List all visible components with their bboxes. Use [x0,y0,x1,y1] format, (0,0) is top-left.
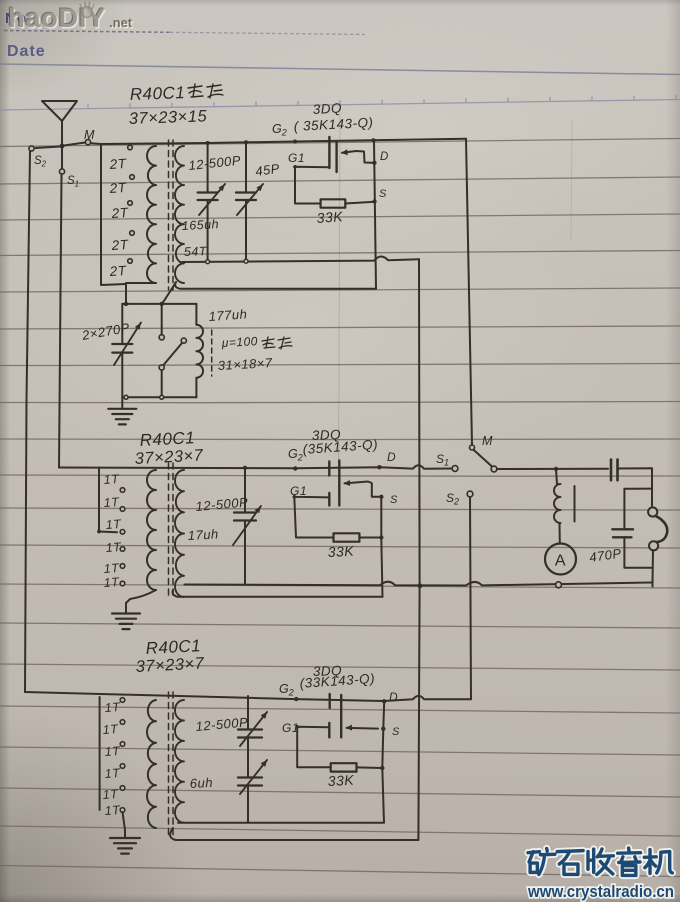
svg-text:1T: 1T [104,744,121,759]
svg-text:G1: G1 [290,484,307,498]
svg-text:R40C1: R40C1 [129,83,185,104]
svg-text:6uh: 6uh [189,775,213,791]
svg-text:1T: 1T [104,766,121,781]
svg-text:37×23×7: 37×23×7 [135,654,205,676]
svg-text:1T: 1T [105,540,122,555]
svg-text:1T: 1T [103,561,120,576]
svg-text:31×18×7: 31×18×7 [217,355,273,373]
svg-text:3DQ: 3DQ [312,100,342,117]
svg-text:1T: 1T [105,517,122,532]
svg-text:1T: 1T [103,575,120,590]
svg-text:D: D [380,151,389,163]
svg-text:.net: .net [109,15,133,30]
svg-text:2T: 2T [108,156,128,172]
svg-text:S: S [392,726,400,738]
svg-text:165uh: 165uh [181,217,219,233]
svg-text:37×23×7: 37×23×7 [134,446,204,468]
svg-text:D: D [389,690,398,704]
svg-text:M: M [84,128,95,142]
svg-text:Date: Date [7,43,46,60]
svg-text:D: D [387,450,396,464]
svg-text:S: S [379,188,387,200]
svg-text:www.crystalradio.cn: www.crystalradio.cn [527,883,674,901]
svg-text:S: S [390,494,398,506]
svg-text:33K: 33K [316,208,344,226]
svg-text:54T: 54T [184,244,208,259]
svg-text:2T: 2T [110,237,130,253]
svg-text:A: A [555,553,566,570]
svg-text:1T: 1T [104,803,121,818]
svg-text:1T: 1T [102,787,119,802]
svg-text:1T: 1T [104,700,121,715]
svg-text:33K: 33K [327,772,354,789]
svg-text:17uh: 17uh [187,526,219,543]
svg-text:2T: 2T [108,263,128,279]
svg-text:G1: G1 [282,721,299,735]
svg-text:2T: 2T [110,205,130,221]
svg-text:33K: 33K [327,543,354,560]
svg-text:177uh: 177uh [208,306,248,324]
svg-text:37×23×15: 37×23×15 [129,107,208,128]
svg-text:G1: G1 [288,151,305,165]
svg-text:μ=100: μ=100 [220,334,258,350]
svg-text:1T: 1T [102,722,119,737]
svg-text:1T: 1T [103,495,120,510]
svg-text:2T: 2T [108,180,128,196]
svg-text:1T: 1T [103,472,120,487]
svg-text:M: M [482,434,493,448]
